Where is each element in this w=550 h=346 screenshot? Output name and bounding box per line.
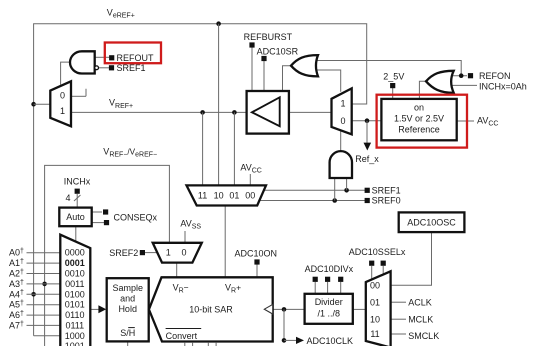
label pin A1 [9, 258, 24, 268]
node buffer output tap to mux input 01 [232, 110, 237, 185]
wire ACLK to clock mux input 01 [391, 301, 406, 303]
pin square ADC10SR [261, 56, 266, 61]
wire VREF-/VeREF- net [45, 165, 170, 346]
wire Auto to CONSEQx lower [92, 222, 104, 224]
10-bit SAR box [149, 277, 273, 341]
wire SAR clock from divider [273, 308, 305, 310]
wire ADC10DIVx bits to divider [315, 282, 341, 294]
wire A4 input [27, 293, 60, 295]
label INCHx=0Ah [479, 81, 527, 91]
node ADC10CLK junction [282, 338, 297, 343]
wire VeREF+ rail to input-mux channel 1000 [34, 335, 60, 337]
wire Auto to input mux [75, 226, 77, 242]
wire A3 input [27, 283, 60, 285]
wire ADC10ON to SAR [256, 264, 258, 277]
svg-text:0: 0 [60, 90, 65, 100]
svg-text:ADC10ON: ADC10ON [235, 249, 278, 259]
wire A6 input [27, 314, 60, 316]
wire AND U5 output to mux U4 bottom [340, 131, 342, 152]
input mux INCHx [60, 235, 90, 346]
label Ref_x [355, 154, 379, 164]
label VeREF+ [107, 7, 135, 19]
sample and hold box [107, 278, 149, 341]
label channel 1000 [65, 331, 85, 341]
label mux input 01 [229, 191, 239, 201]
mux clock source select [366, 271, 391, 346]
arrow input mux to S/H [98, 305, 106, 313]
wire reference mux output to SAR VR+ [224, 206, 226, 278]
label AVSS [180, 218, 201, 230]
pin square SREF2 [140, 250, 145, 255]
label mux U7 input 0 [181, 248, 186, 258]
wire divider output to clock mux [353, 308, 366, 310]
pin square 2_5V [390, 83, 395, 88]
label ADC10CLK [307, 336, 354, 346]
label channel 1001 [65, 341, 85, 346]
label /1 ../8 [317, 309, 340, 319]
label ADC10SSELx [349, 247, 406, 257]
svg-text:ACLK: ACLK [408, 297, 432, 307]
label clock mux 01 [370, 297, 380, 307]
wire ADC10OSC to clock mux input 00 [391, 232, 432, 285]
svg-text:Reference: Reference [398, 124, 440, 134]
wire REFON net to OR U3 upper input [312, 61, 467, 76]
wire reference output to mux U4 input 0 [352, 120, 382, 122]
label SMCLK [408, 331, 439, 341]
label and [120, 293, 135, 303]
label pin A2 [9, 269, 24, 279]
label channel 0001 [65, 258, 85, 268]
label INCHx [64, 177, 91, 187]
wire A2 input [27, 273, 60, 275]
label bus width 4 [66, 193, 71, 203]
label VR- [173, 283, 189, 295]
label pin A7 [9, 320, 24, 330]
pin square REFBURST [249, 42, 254, 47]
label ADC10SR [257, 46, 299, 56]
wire A7 input [27, 324, 60, 326]
wire A5 input [27, 304, 60, 306]
svg-text:00: 00 [245, 191, 255, 201]
svg-text:0: 0 [340, 116, 345, 126]
svg-text:ADC10SSELx: ADC10SSELx [349, 247, 406, 257]
pin square REFON [468, 73, 473, 78]
label channel 0000 [65, 248, 85, 258]
label pin A0 [9, 248, 24, 258]
and-gate U5 vertical [330, 151, 352, 178]
highlight red box reference [377, 95, 467, 148]
label SREF1 select [372, 185, 401, 195]
svg-text:Ref_x: Ref_x [355, 154, 379, 164]
label ACLK [408, 297, 432, 307]
label mux U4 input 1 [340, 99, 345, 109]
wire OR U6 output to reference box [419, 81, 427, 99]
label channel 0100 [65, 289, 85, 299]
reference generator box [381, 99, 456, 140]
label ADC10DIVx [305, 264, 354, 274]
wire OR U3 lower input to mux U4 [312, 70, 341, 92]
wire AVSS to mux U7 [184, 231, 186, 243]
svg-text:01: 01 [229, 191, 239, 201]
node VeREF+ junction on top rail [216, 21, 221, 26]
wire mux U2 output to left rail [34, 103, 51, 105]
pin square SREF1 [109, 65, 114, 70]
label channel 0101 [65, 300, 85, 310]
svg-text:REFOUT: REFOUT [117, 53, 155, 63]
label SREF1 pin [117, 63, 146, 73]
label ADC10OSC [407, 218, 456, 228]
svg-text:SREF1: SREF1 [117, 63, 146, 73]
label clock mux 00 [370, 280, 380, 290]
mux U7 SREF2 select [153, 243, 202, 263]
label clock mux 11 [370, 329, 379, 339]
svg-text:Hold: Hold [118, 304, 137, 314]
wire SMCLK to clock mux input 11 [391, 333, 406, 335]
label clock mux 10 [370, 314, 380, 324]
label VREF-/VeREF- [103, 147, 157, 159]
label mux input 00 [245, 191, 255, 201]
node Ref_x junction [365, 118, 370, 143]
svg-text:Sample: Sample [112, 283, 143, 293]
label CONSEQx [114, 212, 158, 222]
svg-text:ADC10DIVx: ADC10DIVx [305, 264, 354, 274]
pin square INCHx [75, 189, 80, 194]
svg-text:0001: 0001 [65, 258, 85, 268]
svg-text:Auto: Auto [66, 212, 85, 222]
label MCLK [408, 314, 433, 324]
label channel 0010 [65, 269, 85, 279]
svg-text:11: 11 [198, 191, 207, 201]
label SREF0 select [372, 196, 401, 206]
wire INCHx to Auto box [76, 194, 78, 208]
label SREF2 [109, 248, 138, 258]
label VR+ [225, 283, 241, 295]
wire SAR data ticks [185, 343, 216, 346]
arrow ADC10CLK [296, 337, 304, 344]
wire ADC10SR to buffer box [263, 61, 265, 92]
svg-text:Convert: Convert [166, 331, 198, 341]
svg-text:10: 10 [370, 314, 380, 324]
svg-text:0101: 0101 [65, 300, 85, 310]
svg-text:on: on [414, 102, 424, 112]
label REFON [479, 71, 511, 81]
mux U2 VeREF+/VREF+ select [50, 81, 71, 126]
wire buffer output to mux U4 [289, 111, 332, 113]
svg-text:1001: 1001 [65, 341, 85, 346]
mux reference 4-input [187, 185, 267, 205]
wire MCLK to clock mux input 10 [391, 318, 406, 320]
svg-text:REFBURST: REFBURST [244, 32, 293, 42]
arrow Ref_x [364, 143, 372, 151]
mux U4 reference select [332, 88, 352, 134]
svg-text:1: 1 [340, 99, 345, 109]
or-gate U6 mirrored [426, 71, 454, 93]
wire 2_5V to reference box [392, 88, 394, 99]
label 1.5V or 2.5V [394, 114, 444, 124]
wire SREF0 select line [260, 200, 365, 202]
svg-text:ADC10SR: ADC10SR [257, 46, 299, 56]
label mux select 0 top-left [60, 90, 65, 100]
svg-text:10-bit SAR: 10-bit SAR [189, 304, 233, 314]
label 2_5V [383, 72, 404, 82]
node REFON junction [459, 73, 464, 78]
wire reference box to AVCC [457, 120, 474, 122]
wire Auto to CONSEQx upper [92, 211, 102, 213]
svg-text:1: 1 [166, 248, 171, 258]
svg-text:SREF1: SREF1 [372, 185, 401, 195]
wire VREF+ line [71, 111, 247, 113]
svg-text:/1 ../8: /1 ../8 [317, 309, 340, 319]
node mux output tap on left rail [31, 102, 36, 107]
label REFBURST [244, 32, 293, 42]
Auto box [59, 208, 91, 227]
pin square CONSEQx upper [103, 209, 108, 214]
svg-text:0: 0 [181, 248, 186, 258]
pin squares ADC10DIVx [313, 277, 344, 282]
label pin A3 [9, 279, 24, 289]
svg-text:0111: 0111 [65, 320, 84, 330]
svg-text:1: 1 [60, 106, 65, 116]
svg-text:0011: 0011 [65, 279, 84, 289]
svg-text:2_5V: 2_5V [383, 72, 404, 82]
label mux input 11 [198, 191, 207, 201]
label mux select 1 top-left [60, 106, 65, 116]
svg-text:INCHx=0Ah: INCHx=0Ah [479, 81, 527, 91]
label mux input 10 [214, 191, 224, 201]
pin square CONSEQx lower [104, 220, 109, 225]
svg-text:0010: 0010 [65, 269, 85, 279]
wire AVCC to reference mux input 00 [249, 174, 251, 185]
clock notch on SAR [264, 304, 272, 314]
wire input mux to sample and hold [90, 308, 99, 310]
wire SREF1 to AND U1 inverted input [98, 67, 109, 69]
label pin A4 [9, 289, 24, 299]
or-gate U3 mirrored [291, 55, 318, 76]
bus slash 4 [74, 195, 81, 201]
label AVCC top [240, 163, 261, 175]
pin square SREF0 select [365, 198, 370, 203]
node SREF1 to AND U5 [344, 178, 349, 193]
label AVCC right [477, 116, 498, 128]
wire AND U1 output to mux U2 select [61, 62, 70, 85]
pin square SREF1 select [365, 188, 370, 193]
svg-text:Divider: Divider [315, 297, 343, 307]
label Convert [166, 329, 202, 341]
svg-text:1.5V or 2.5V: 1.5V or 2.5V [394, 114, 444, 124]
label pin A6 [9, 310, 24, 320]
label Sample [112, 283, 143, 293]
label Hold [118, 304, 137, 314]
svg-text:ADC10CLK: ADC10CLK [307, 336, 354, 346]
svg-text:INCHx: INCHx [64, 177, 91, 187]
node A4 junction on left rail [31, 292, 36, 297]
svg-text:REFON: REFON [479, 71, 511, 81]
svg-text:11: 11 [370, 329, 379, 339]
svg-text:S/H: S/H [120, 328, 135, 338]
svg-text:1000: 1000 [65, 331, 85, 341]
label 10-bit SAR [189, 304, 233, 314]
label mux U7 input 1 [166, 248, 171, 258]
wire REFBURST to buffer box [251, 47, 253, 91]
wire mux U7 output to SAR VR- [176, 263, 178, 278]
highlight red box REFOUT [105, 43, 161, 64]
ADC10OSC box [399, 212, 465, 232]
label Auto [66, 212, 85, 222]
wire A0 input [27, 252, 60, 254]
node VREF+ tap to mux input 11 [200, 110, 205, 185]
wire VeREF+ top rail [34, 24, 367, 336]
op-amp buffer box U8 [247, 91, 289, 134]
svg-text:01: 01 [370, 297, 380, 307]
svg-text:10: 10 [214, 191, 224, 201]
label S/H [120, 328, 135, 338]
node SAR clock junction [282, 307, 287, 340]
wire ADC10SSELx bits to clock mux [372, 266, 384, 280]
and-gate U1 mirrored [70, 51, 98, 73]
label REFOUT [117, 53, 155, 63]
svg-text:SREF0: SREF0 [372, 196, 401, 206]
wire sample and hold clock below [127, 341, 129, 346]
svg-text:0000: 0000 [65, 248, 85, 258]
node SREF0 to AND U5 [332, 178, 337, 203]
label on [414, 102, 424, 112]
pin squares ADC10SSELx [369, 261, 386, 266]
wire INCHx=0Ah to OR U6 input [450, 84, 477, 86]
node A3 junction on VREF- net [42, 282, 47, 287]
svg-text:0110: 0110 [65, 310, 84, 320]
wire A1 input [27, 262, 60, 264]
wire mux U2 input 0 stub [71, 89, 86, 97]
svg-text:SMCLK: SMCLK [408, 331, 439, 341]
label Reference [398, 124, 440, 134]
divider box [305, 294, 353, 324]
label ADC10ON [235, 249, 278, 259]
label Divider [315, 297, 343, 307]
wire REFOUT to AND U1 input [95, 56, 109, 58]
wire VeREF+ drop to reference mux input 10 [218, 24, 220, 186]
label mux U4 input 0 [340, 116, 345, 126]
svg-text:and: and [120, 293, 135, 303]
label pin A5 [9, 300, 24, 310]
svg-text:00: 00 [370, 280, 380, 290]
label channel 0111 [65, 320, 84, 330]
pin square REFOUT [109, 55, 114, 60]
svg-text:0100: 0100 [65, 289, 85, 299]
svg-text:CONSEQx: CONSEQx [114, 212, 158, 222]
wire OR U3 output to buffer box [283, 66, 292, 91]
svg-text:MCLK: MCLK [408, 314, 433, 324]
wire SREF1 select line [263, 189, 366, 191]
svg-text:4: 4 [66, 193, 71, 203]
label VREF+ [109, 98, 133, 110]
label channel 0110 [65, 310, 84, 320]
label channel 0011 [65, 279, 84, 289]
pin square ADC10ON [254, 259, 259, 264]
svg-text:ADC10OSC: ADC10OSC [407, 218, 456, 228]
svg-text:SREF2: SREF2 [109, 248, 138, 258]
wire SREF2 to mux U7 [144, 252, 157, 254]
